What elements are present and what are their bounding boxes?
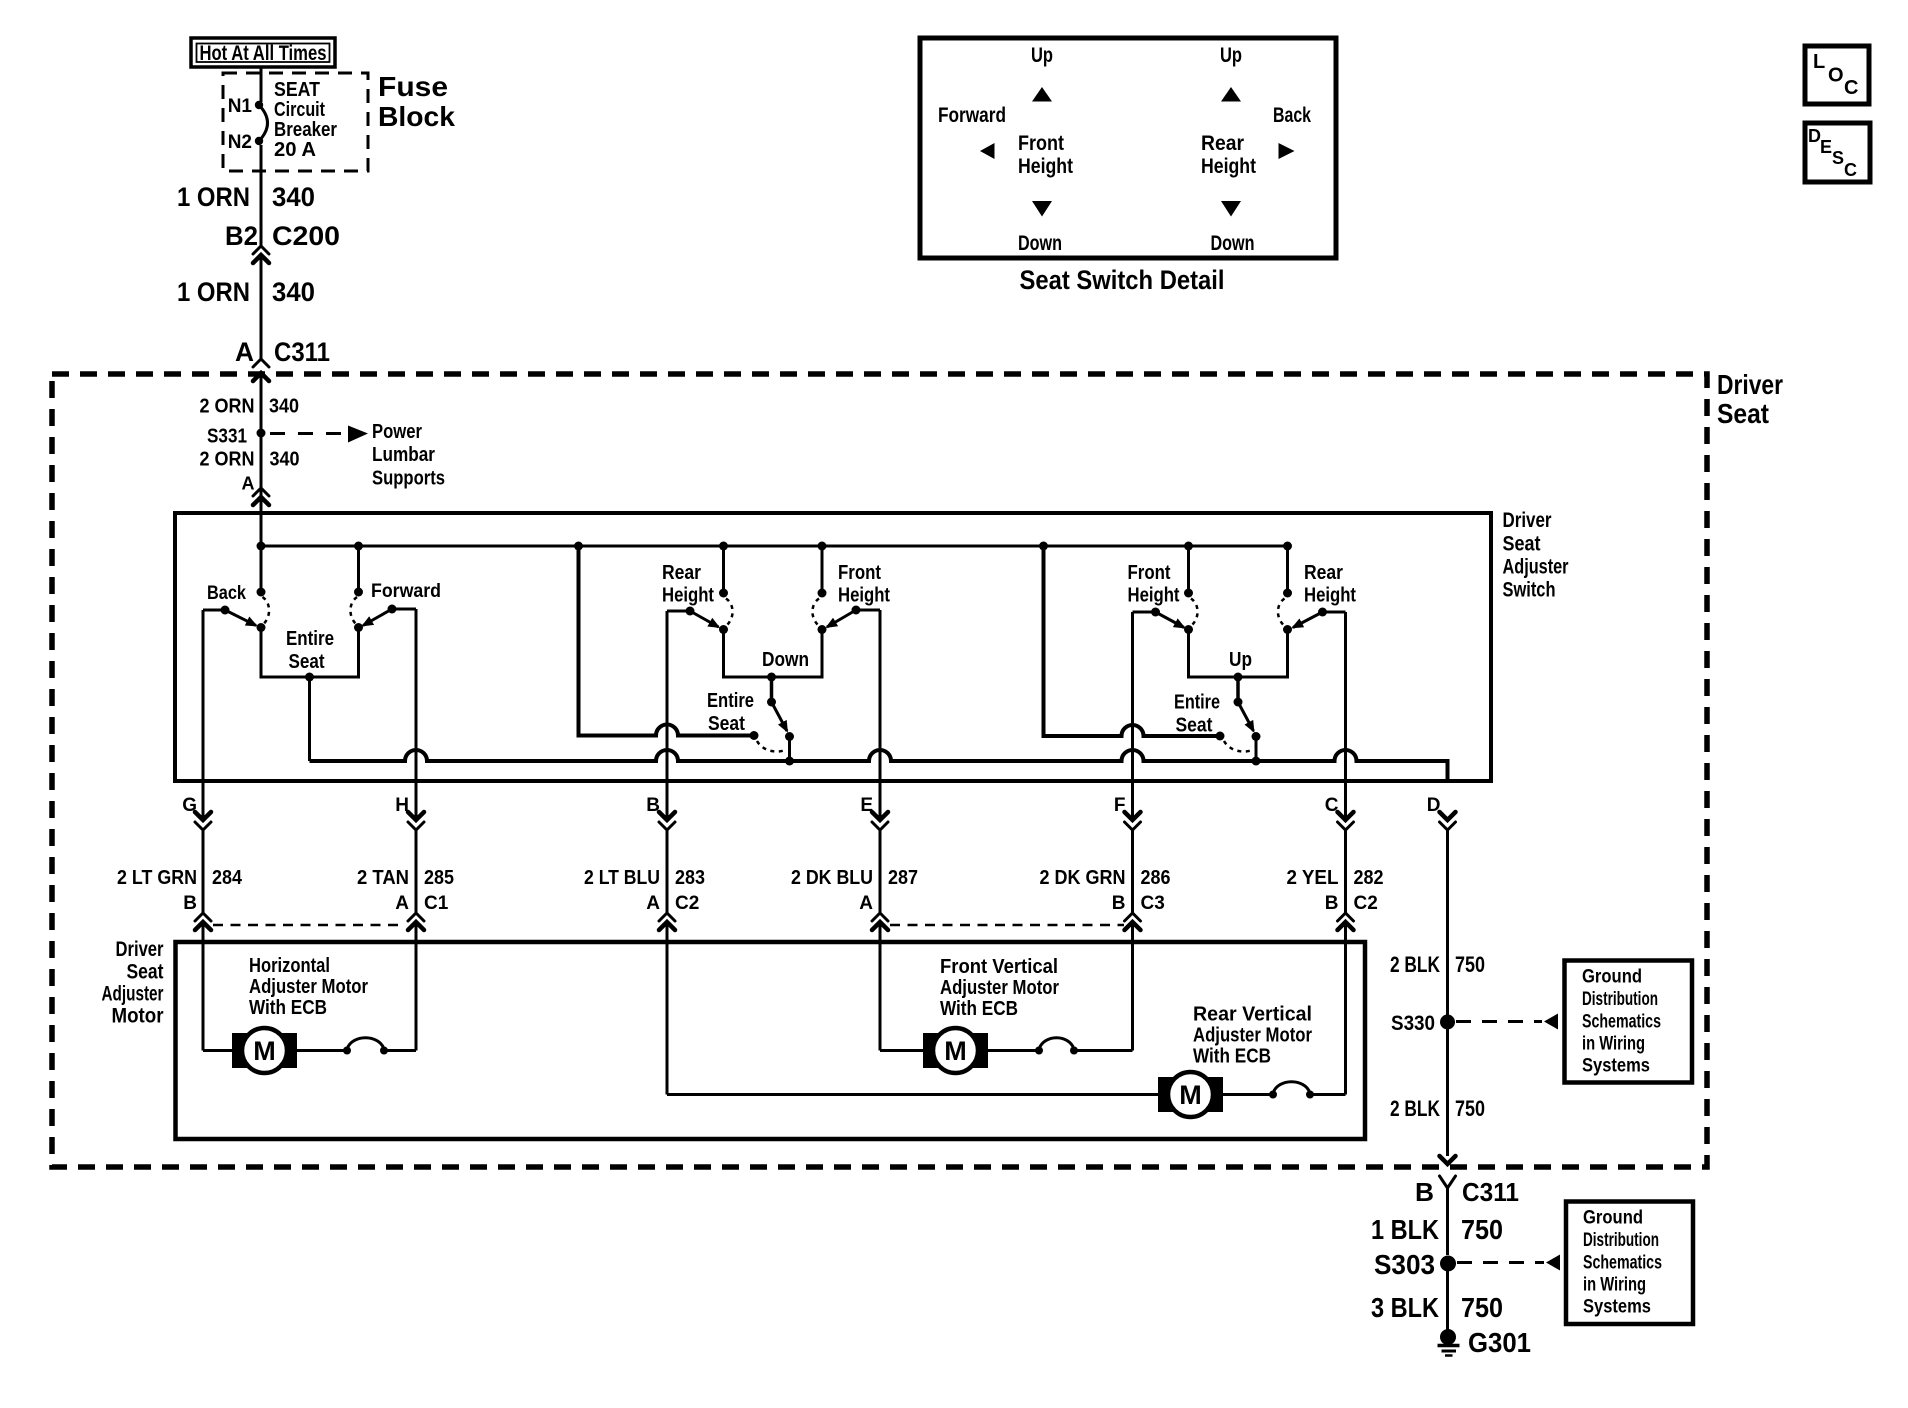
svg-text:20 A: 20 A <box>274 139 316 161</box>
feed wire bus to entire-seat fixed contact (group 3) with hop over terminal F wire <box>1044 546 1221 736</box>
svg-text:C: C <box>1844 160 1857 180</box>
wire label 2 TAN 285 <box>357 867 454 889</box>
svg-text:M: M <box>253 1036 276 1066</box>
wire label 3 BLK 750 <box>1371 1292 1503 1323</box>
junction node on bus for Rear Height stub <box>719 542 728 551</box>
Front Height alternate position dashed arc <box>812 599 819 625</box>
Front Height wiper arm <box>1156 612 1185 628</box>
svg-text:N1: N1 <box>228 96 253 117</box>
Front Height fixed contact stub <box>1187 546 1190 593</box>
svg-text:B2: B2 <box>225 221 258 251</box>
down arrow (front) <box>1032 201 1052 217</box>
svg-text:Rear: Rear <box>1201 132 1244 155</box>
wire label 2 ORN 340 <box>200 449 300 471</box>
Rear Height fixed contact <box>719 589 728 598</box>
svg-text:Height: Height <box>1201 155 1256 178</box>
circuit breaker element <box>255 101 268 145</box>
svg-text:C200: C200 <box>272 221 340 251</box>
wire G to horizontal motor <box>203 1049 232 1052</box>
label Driver Seat Adjuster Motor <box>102 938 164 1028</box>
svg-text:With ECB: With ECB <box>1193 1046 1271 1068</box>
svg-text:Schematics: Schematics <box>1583 1253 1662 1274</box>
supply bus inside switch <box>261 545 1288 548</box>
svg-text:Driver: Driver <box>116 938 164 961</box>
wire label 1 BLK 750 <box>1371 1214 1503 1245</box>
feed wire bus to entire-seat fixed contact (group 2) with hop over terminal B wire <box>579 546 755 736</box>
svg-text:Seat: Seat <box>1717 398 1769 429</box>
wire motor M3 to breaker <box>1223 1093 1273 1096</box>
svg-text:Power: Power <box>372 421 422 443</box>
Back alternate position dashed arc <box>263 597 270 624</box>
Forward alternate position dashed arc <box>350 597 357 624</box>
wire label 2 LT GRN 284 <box>117 867 243 889</box>
terminal B connector halves <box>659 812 675 830</box>
wire breaker to terminal F wire <box>1074 1049 1133 1052</box>
entire-seat switch arm (group 3) <box>1238 702 1254 731</box>
detail label Rear Height <box>1201 132 1256 178</box>
return bus to terminal D with hops over terminal wires H B E F C <box>310 750 1448 781</box>
entire-seat switch pivot (group 3) <box>1234 698 1243 707</box>
svg-text:A: A <box>242 474 255 494</box>
svg-text:Forward: Forward <box>371 581 441 602</box>
entire-seat switch arm (group 2) <box>772 702 788 731</box>
Rear Height movable contact <box>1283 625 1292 634</box>
stub pivot to terminal G wire <box>203 609 225 612</box>
label Rear Vertical Adjuster Motor With ECB <box>1193 1004 1312 1068</box>
svg-text:G301: G301 <box>1468 1327 1531 1358</box>
motor M1 horizontal adjuster <box>232 1028 297 1073</box>
wire G into motor box <box>202 922 205 1051</box>
svg-text:in Wiring: in Wiring <box>1583 1275 1646 1296</box>
svg-text:Fuse: Fuse <box>378 71 448 102</box>
svg-text:Front Vertical: Front Vertical <box>940 956 1058 978</box>
svg-text:340: 340 <box>269 396 299 418</box>
entire-seat movable contact (group 2) <box>785 732 794 741</box>
wire D ground return down right side <box>1446 830 1449 1156</box>
entire-seat fixed contact (group 2) <box>750 731 759 740</box>
svg-text:Breaker: Breaker <box>274 119 337 141</box>
motor M2 front vertical adjuster <box>923 1028 988 1073</box>
wire label 2 ORN 340 <box>200 396 300 418</box>
Front Height wiper pivot <box>1151 608 1160 617</box>
in-line connector C200 <box>253 246 269 263</box>
wire label 2 BLK 750 <box>1390 1096 1485 1121</box>
terminal F connector halves <box>1125 812 1141 830</box>
Back fixed contact <box>257 588 266 597</box>
svg-text:Systems: Systems <box>1582 1056 1650 1077</box>
svg-text:Height: Height <box>1304 585 1356 607</box>
Forward wiper arm <box>363 609 392 626</box>
label Fuse Block <box>378 71 455 132</box>
junction node cup output (group 3) <box>1234 673 1243 682</box>
svg-text:Seat Switch Detail: Seat Switch Detail <box>1020 265 1225 295</box>
Forward fixed contact stub <box>357 546 360 592</box>
wire label 1 ORN 340 <box>177 277 315 307</box>
svg-text:B: B <box>183 893 197 914</box>
wire H to motor connector <box>415 830 418 913</box>
svg-text:2 YEL: 2 YEL <box>1287 867 1339 889</box>
svg-text:Up: Up <box>1031 44 1053 67</box>
svg-text:C2: C2 <box>675 893 699 914</box>
label Front Height <box>1128 562 1180 607</box>
Forward movable contact <box>354 623 363 632</box>
svg-text:2 DK BLU: 2 DK BLU <box>791 867 873 889</box>
svg-text:A: A <box>859 893 873 914</box>
svg-text:Height: Height <box>1128 585 1180 607</box>
stub pivot to terminal B wire <box>667 610 690 613</box>
svg-text:Entire: Entire <box>707 690 754 712</box>
svg-text:Rear: Rear <box>1304 562 1343 584</box>
svg-text:Front: Front <box>1128 562 1171 584</box>
left arrow (forward) <box>980 143 995 159</box>
svg-text:With ECB: With ECB <box>940 998 1018 1020</box>
wire motor M2 to breaker <box>988 1049 1039 1052</box>
entire-seat alternate position dashed arc (group 2) <box>757 741 784 752</box>
ground G301 <box>1438 1327 1532 1358</box>
label Front Vertical Adjuster Motor With ECB <box>940 956 1059 1020</box>
seat switch detail box <box>920 38 1336 258</box>
wire E to motor connector <box>879 830 882 913</box>
wire from Hot At All Times into breaker <box>260 67 263 102</box>
svg-text:1 ORN: 1 ORN <box>177 277 250 307</box>
motor M3 rear vertical adjuster <box>1158 1072 1223 1117</box>
wire B to rear vertical motor <box>667 1093 1158 1096</box>
in-line motor connector C1 <box>408 913 424 930</box>
entire-seat switch arm feed (group 3) <box>1236 677 1240 701</box>
svg-text:C311: C311 <box>1462 1177 1519 1207</box>
svg-text:1 ORN: 1 ORN <box>177 182 250 212</box>
wire motor M1 to breaker <box>297 1049 347 1052</box>
svg-text:Height: Height <box>662 585 714 607</box>
junction node cup output <box>305 673 314 682</box>
svg-text:A: A <box>235 337 254 367</box>
svg-text:Ground: Ground <box>1582 967 1642 988</box>
up common cup (group 3) <box>1189 630 1288 678</box>
motor connector C3 pin B labels <box>1112 893 1165 914</box>
svg-text:B: B <box>1415 1177 1434 1207</box>
terminal E connector halves <box>872 812 888 830</box>
svg-text:C311: C311 <box>274 337 330 367</box>
svg-text:286: 286 <box>1141 867 1171 889</box>
wire breaker output down to connector C200 <box>260 145 263 246</box>
svg-text:Supports: Supports <box>372 468 445 490</box>
Front Height wiper pivot <box>852 606 861 615</box>
wire breaker to terminal H wire <box>384 1049 416 1052</box>
label Horizontal Adjuster Motor With ECB <box>249 955 368 1019</box>
svg-text:750: 750 <box>1455 952 1485 977</box>
svg-text:N2: N2 <box>228 132 252 153</box>
label Driver Seat <box>1717 369 1783 429</box>
connector C311 pin A labels <box>235 337 330 367</box>
svg-text:Driver: Driver <box>1503 509 1552 532</box>
stub pivot to terminal C wire <box>1323 611 1346 614</box>
reference box Ground Distribution Schematics in Wiring Systems (lower) <box>1566 1202 1693 1325</box>
up arrow (front) <box>1032 87 1052 102</box>
label Entire Seat (group 3) <box>1174 692 1220 737</box>
stub pivot to terminal E wire <box>856 609 880 612</box>
wire F into motor box <box>1131 922 1134 1051</box>
Front Height wiper arm <box>827 610 856 627</box>
svg-text:2 LT BLU: 2 LT BLU <box>584 867 660 889</box>
svg-text:2 BLK: 2 BLK <box>1390 952 1440 977</box>
entire-seat alternate position dashed arc (group 3) <box>1224 741 1251 752</box>
svg-text:340: 340 <box>272 182 315 212</box>
Back movable contact <box>257 623 266 632</box>
DESC reference box <box>1805 123 1870 182</box>
svg-text:285: 285 <box>424 867 454 889</box>
Front Height movable contact <box>1184 625 1193 634</box>
Front Height fixed contact <box>818 589 827 598</box>
Back fixed contact stub from bus <box>260 546 263 592</box>
wire E into motor box <box>879 922 882 1051</box>
svg-text:A: A <box>395 893 409 914</box>
wire terminal G out of switch <box>202 610 205 820</box>
wire label 2 YEL 282 <box>1287 867 1384 889</box>
label Rear Height <box>1304 562 1356 607</box>
LOC reference box <box>1805 46 1869 104</box>
Forward fixed contact <box>354 588 363 597</box>
svg-text:Back: Back <box>1273 104 1311 127</box>
svg-text:Height: Height <box>838 585 890 607</box>
reference label Power Lumbar Supports <box>372 421 445 490</box>
svg-text:Seat: Seat <box>708 713 745 735</box>
in-line motor connector (C wire) <box>1338 913 1354 930</box>
up arrow (rear) <box>1221 87 1241 102</box>
wire C to motor connector <box>1344 830 1347 913</box>
entire-seat movable contact (group 3) <box>1252 732 1261 741</box>
svg-text:750: 750 <box>1455 1096 1485 1121</box>
svg-text:Seat: Seat <box>127 961 164 984</box>
in-line motor connector (G wire) <box>195 913 211 930</box>
motor connector C1 pin A labels <box>395 893 448 914</box>
wire F to motor connector <box>1131 830 1134 913</box>
connector C200 pin B2 labels <box>225 221 340 251</box>
svg-text:C3: C3 <box>1141 893 1165 914</box>
wire into switch to bus <box>260 497 263 592</box>
svg-text:Down: Down <box>1211 232 1255 255</box>
Back wiper pivot <box>221 606 230 615</box>
wire terminal F out of switch <box>1131 612 1134 820</box>
junction node on return bus (group 3) <box>1252 757 1261 766</box>
fuse block dashed outline <box>223 73 368 171</box>
dashed reference arrow to ground distribution (S303) <box>1457 1255 1560 1271</box>
Rear Height wiper arm <box>1293 612 1323 628</box>
wire breaker to terminal C wire <box>1310 1093 1346 1096</box>
svg-text:Forward: Forward <box>938 104 1006 127</box>
down common cup (group 2) <box>724 630 823 678</box>
svg-text:Adjuster Motor: Adjuster Motor <box>1193 1025 1312 1047</box>
label Front Height <box>838 562 890 607</box>
svg-text:2 ORN: 2 ORN <box>200 396 255 418</box>
svg-text:S331: S331 <box>207 426 247 448</box>
svg-text:S303: S303 <box>1374 1249 1435 1280</box>
svg-text:3 BLK: 3 BLK <box>1371 1292 1439 1323</box>
label Entire Seat (group 2) <box>707 690 754 735</box>
svg-text:Entire: Entire <box>1174 692 1220 714</box>
Rear Height wiper pivot <box>1318 608 1327 617</box>
svg-text:Seat: Seat <box>289 651 325 673</box>
in-line motor connector C2 <box>659 913 675 930</box>
svg-text:2 ORN: 2 ORN <box>200 449 255 471</box>
svg-text:Distribution: Distribution <box>1582 989 1658 1010</box>
wire terminal B out of switch <box>666 611 669 820</box>
wire C311 to splice S303 <box>1446 1188 1449 1255</box>
Front Height fixed contact <box>1184 589 1193 598</box>
stub pivot to terminal F wire <box>1133 611 1156 614</box>
terminal G connector halves <box>195 812 211 830</box>
power source box "Hot At All Times" <box>191 38 335 67</box>
svg-text:Down: Down <box>1018 232 1062 255</box>
svg-text:Up: Up <box>1229 649 1252 671</box>
motor connector C2 pin B labels (C wire) <box>1325 893 1378 914</box>
svg-text:M: M <box>944 1036 967 1066</box>
svg-text:SEAT: SEAT <box>274 79 320 101</box>
junction node on bus for Front Height stub <box>818 542 827 551</box>
svg-text:C: C <box>1844 77 1858 99</box>
svg-text:A: A <box>646 893 660 914</box>
stub pivot to terminal H wire <box>392 608 416 611</box>
Front Height alternate position dashed arc <box>1191 599 1198 625</box>
svg-text:Height: Height <box>1018 155 1073 178</box>
svg-text:Seat: Seat <box>1503 533 1541 556</box>
Rear Height alternate position dashed arc <box>1278 599 1285 625</box>
svg-text:284: 284 <box>212 867 243 889</box>
svg-text:Rear: Rear <box>662 562 701 584</box>
junction node on bus feeding entire-seat contact (group 3) <box>1039 542 1048 551</box>
wire G to motor connector <box>202 830 205 913</box>
svg-text:Down: Down <box>762 649 809 671</box>
svg-text:Back: Back <box>207 583 246 604</box>
svg-text:750: 750 <box>1461 1292 1503 1323</box>
svg-text:282: 282 <box>1354 867 1384 889</box>
dashed reference arrow to Power Lumbar Supports <box>270 426 368 443</box>
splice S331 <box>207 426 266 448</box>
svg-text:287: 287 <box>888 867 918 889</box>
svg-text:B: B <box>1112 893 1126 914</box>
svg-text:Front: Front <box>838 562 881 584</box>
dashed reference arrow to ground distribution (S330) <box>1456 1014 1558 1030</box>
svg-text:Rear Vertical: Rear Vertical <box>1193 1004 1312 1026</box>
svg-text:2 LT GRN: 2 LT GRN <box>117 867 197 889</box>
entire-seat common cup (group 1) <box>261 628 359 678</box>
svg-text:With ECB: With ECB <box>249 997 327 1019</box>
svg-text:Entire: Entire <box>286 628 334 650</box>
svg-text:Motor: Motor <box>112 1005 164 1028</box>
svg-text:Adjuster: Adjuster <box>102 983 164 1006</box>
label Rear Height <box>662 562 714 607</box>
svg-text:Up: Up <box>1220 44 1242 67</box>
label Driver Seat Adjuster Switch <box>1503 509 1569 602</box>
circuit breaker ECB (M2) <box>1035 1038 1078 1055</box>
detail label Front Height <box>1018 132 1073 178</box>
svg-text:1 BLK: 1 BLK <box>1371 1214 1439 1245</box>
circuit breaker ECB (M3) <box>1269 1082 1314 1099</box>
Rear Height movable contact <box>719 625 728 634</box>
junction node on bus for Front Height stub <box>1184 542 1193 551</box>
svg-text:Adjuster Motor: Adjuster Motor <box>249 976 368 998</box>
junction node cup output (group 2) <box>767 673 776 682</box>
in-line connector C311 at Driver Seat boundary <box>253 359 269 381</box>
wire S303 to ground G301 <box>1446 1263 1449 1332</box>
in-line connector at switch pin A <box>253 488 269 505</box>
svg-text:750: 750 <box>1461 1214 1503 1245</box>
wire label 2 DK BLU 287 <box>791 867 918 889</box>
wire terminal H out of switch <box>415 609 418 820</box>
svg-text:Adjuster: Adjuster <box>1503 556 1569 579</box>
svg-text:Seat: Seat <box>1176 715 1213 737</box>
wire terminal E out of switch <box>879 610 882 820</box>
wire C into motor box <box>1344 922 1347 1095</box>
motor connector C2 pin A labels <box>646 893 699 914</box>
entire-seat switch pivot (group 2) <box>767 698 776 707</box>
Back wiper arm <box>225 610 256 626</box>
entire-seat fixed contact (group 3) <box>1216 732 1225 741</box>
right arrow (back) <box>1279 143 1295 159</box>
svg-text:in Wiring: in Wiring <box>1582 1034 1645 1055</box>
svg-text:Hot At All Times: Hot At All Times <box>200 42 327 65</box>
svg-text:Block: Block <box>378 101 455 132</box>
svg-text:Switch: Switch <box>1503 579 1556 602</box>
wire label 2 BLK 750 <box>1390 952 1485 977</box>
dashed connector tie E-F <box>890 924 1124 927</box>
Rear Height wiper pivot <box>686 607 695 616</box>
wire B into motor box <box>666 922 669 1095</box>
connector C311 pin B labels <box>1415 1177 1519 1207</box>
wire H into motor box <box>415 922 418 1051</box>
wire label 2 DK GRN 286 <box>1040 867 1171 889</box>
svg-text:340: 340 <box>270 449 300 471</box>
svg-text:C2: C2 <box>1354 893 1378 914</box>
splice S330 <box>1391 1012 1455 1035</box>
svg-text:B: B <box>1325 893 1339 914</box>
dashed connector tie G-H <box>213 924 405 927</box>
svg-text:S330: S330 <box>1391 1012 1435 1035</box>
Rear Height wiper arm <box>690 611 719 627</box>
junction node on return bus (group 2) <box>785 757 794 766</box>
in-line connector C311 pin B at boundary <box>1440 1156 1456 1188</box>
svg-text:E: E <box>1820 137 1832 157</box>
svg-text:2 BLK: 2 BLK <box>1390 1096 1440 1121</box>
svg-text:2 DK GRN: 2 DK GRN <box>1040 867 1126 889</box>
svg-text:C1: C1 <box>424 893 449 914</box>
junction node on bus for Forward stub <box>354 542 363 551</box>
svg-text:Lumbar: Lumbar <box>372 444 435 466</box>
Rear Height alternate position dashed arc <box>726 599 733 625</box>
wire movable contact to return bus (group 2) <box>788 737 791 762</box>
svg-text:Schematics: Schematics <box>1582 1012 1661 1033</box>
svg-text:283: 283 <box>675 867 705 889</box>
wire B to motor connector <box>666 830 669 913</box>
circuit breaker ECB (M1) <box>343 1038 388 1055</box>
reference box Ground Distribution Schematics in Wiring Systems (upper) <box>1565 961 1693 1083</box>
Rear Height fixed contact stub <box>722 546 725 593</box>
terminal H connector halves <box>408 812 424 830</box>
wire label 1 ORN 340 <box>177 182 315 212</box>
terminal C connector halves <box>1338 812 1354 830</box>
svg-text:M: M <box>1179 1080 1202 1110</box>
wire label 2 LT BLU 283 <box>584 867 705 889</box>
Front Height fixed contact stub <box>821 546 824 593</box>
circuit breaker SEAT 20 A value label <box>274 79 337 161</box>
svg-text:Front: Front <box>1018 132 1064 155</box>
entire-seat switch arm feed (group 2) <box>770 677 774 701</box>
Front Height movable contact <box>818 625 827 634</box>
terminal D connector halves <box>1440 812 1456 830</box>
wire E to front vertical motor <box>880 1049 923 1052</box>
svg-text:Circuit: Circuit <box>274 99 325 121</box>
svg-text:S: S <box>1832 148 1844 168</box>
Forward wiper pivot <box>388 605 397 614</box>
